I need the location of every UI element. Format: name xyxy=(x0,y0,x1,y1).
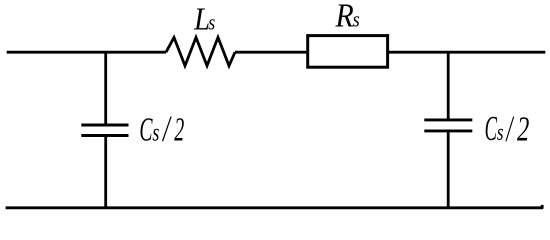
label Cs/2 (left) xyxy=(139,108,184,149)
label Ls xyxy=(193,1,215,37)
svg-text:2: 2 xyxy=(517,109,529,148)
wire: top rail between inductor and resistor xyxy=(235,51,308,54)
wire: top rail right segment xyxy=(388,51,546,54)
svg-text:s: s xyxy=(208,11,215,35)
svg-text:R: R xyxy=(335,0,354,34)
inductor Ls (zigzag symbol) xyxy=(166,37,235,65)
svg-text:C: C xyxy=(485,109,498,148)
wire: left branch upper (node at top rail) xyxy=(104,52,107,123)
svg-text:C: C xyxy=(139,111,152,149)
wire: right branch upper (node at top rail) xyxy=(447,52,450,118)
svg-text:s: s xyxy=(353,8,360,32)
label Rs xyxy=(335,0,360,34)
svg-text:s: s xyxy=(497,118,504,146)
resistor Rs (box symbol) xyxy=(308,36,388,68)
wire: bottom rail (with end hook) xyxy=(6,205,543,208)
svg-text:L: L xyxy=(193,1,210,37)
svg-text:2: 2 xyxy=(174,110,184,148)
wire: top rail left segment xyxy=(7,51,166,54)
capacitor C2 bottom plate xyxy=(424,129,472,132)
wire: right branch lower xyxy=(447,132,450,208)
svg-text:s: s xyxy=(152,117,159,146)
capacitor C1 bottom plate xyxy=(81,134,128,137)
wire: left branch lower xyxy=(104,137,107,208)
label Cs/2 (right) xyxy=(485,108,530,149)
capacitor C1 = Cs/2 (left shunt), top plate xyxy=(81,124,128,127)
capacitor C2 = Cs/2 (right shunt), top plate xyxy=(424,118,472,121)
